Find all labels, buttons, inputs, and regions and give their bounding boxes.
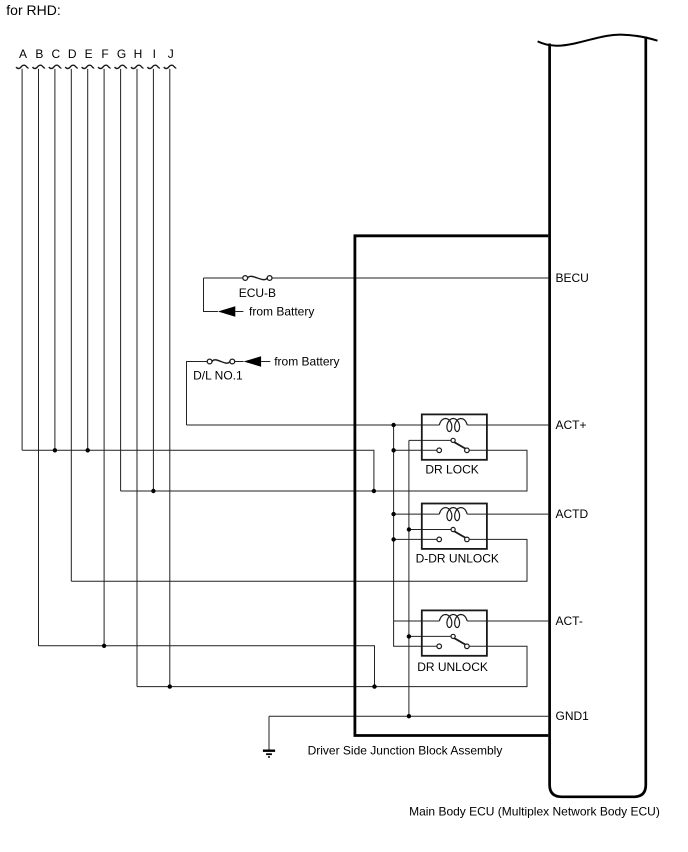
svg-text:D-DR UNLOCK: D-DR UNLOCK bbox=[416, 551, 499, 565]
svg-text:B: B bbox=[35, 47, 43, 61]
svg-text:from Battery: from Battery bbox=[249, 305, 314, 319]
svg-text:H: H bbox=[134, 47, 143, 61]
svg-text:BECU: BECU bbox=[556, 271, 589, 285]
svg-text:for RHD:: for RHD: bbox=[6, 2, 60, 18]
svg-text:DR UNLOCK: DR UNLOCK bbox=[417, 660, 488, 674]
svg-text:G: G bbox=[117, 47, 126, 61]
svg-text:ACT-: ACT- bbox=[556, 614, 583, 628]
svg-text:Main Body ECU (Multiplex Netwo: Main Body ECU (Multiplex Network Body EC… bbox=[409, 804, 660, 818]
svg-text:J: J bbox=[168, 47, 174, 61]
svg-text:GND1: GND1 bbox=[556, 709, 590, 723]
svg-text:ACT+: ACT+ bbox=[556, 418, 587, 432]
svg-text:D: D bbox=[68, 47, 77, 61]
svg-text:E: E bbox=[85, 47, 93, 61]
svg-text:Driver Side Junction Block Ass: Driver Side Junction Block Assembly bbox=[308, 743, 503, 757]
svg-text:A: A bbox=[19, 47, 27, 61]
svg-text:DR LOCK: DR LOCK bbox=[425, 462, 478, 476]
svg-text:from Battery: from Battery bbox=[274, 355, 339, 369]
svg-text:F: F bbox=[101, 47, 108, 61]
svg-text:ECU-B: ECU-B bbox=[239, 286, 276, 300]
svg-text:D/L NO.1: D/L NO.1 bbox=[193, 369, 243, 383]
svg-text:C: C bbox=[51, 47, 60, 61]
svg-text:I: I bbox=[153, 47, 156, 61]
svg-text:ACTD: ACTD bbox=[556, 507, 589, 521]
